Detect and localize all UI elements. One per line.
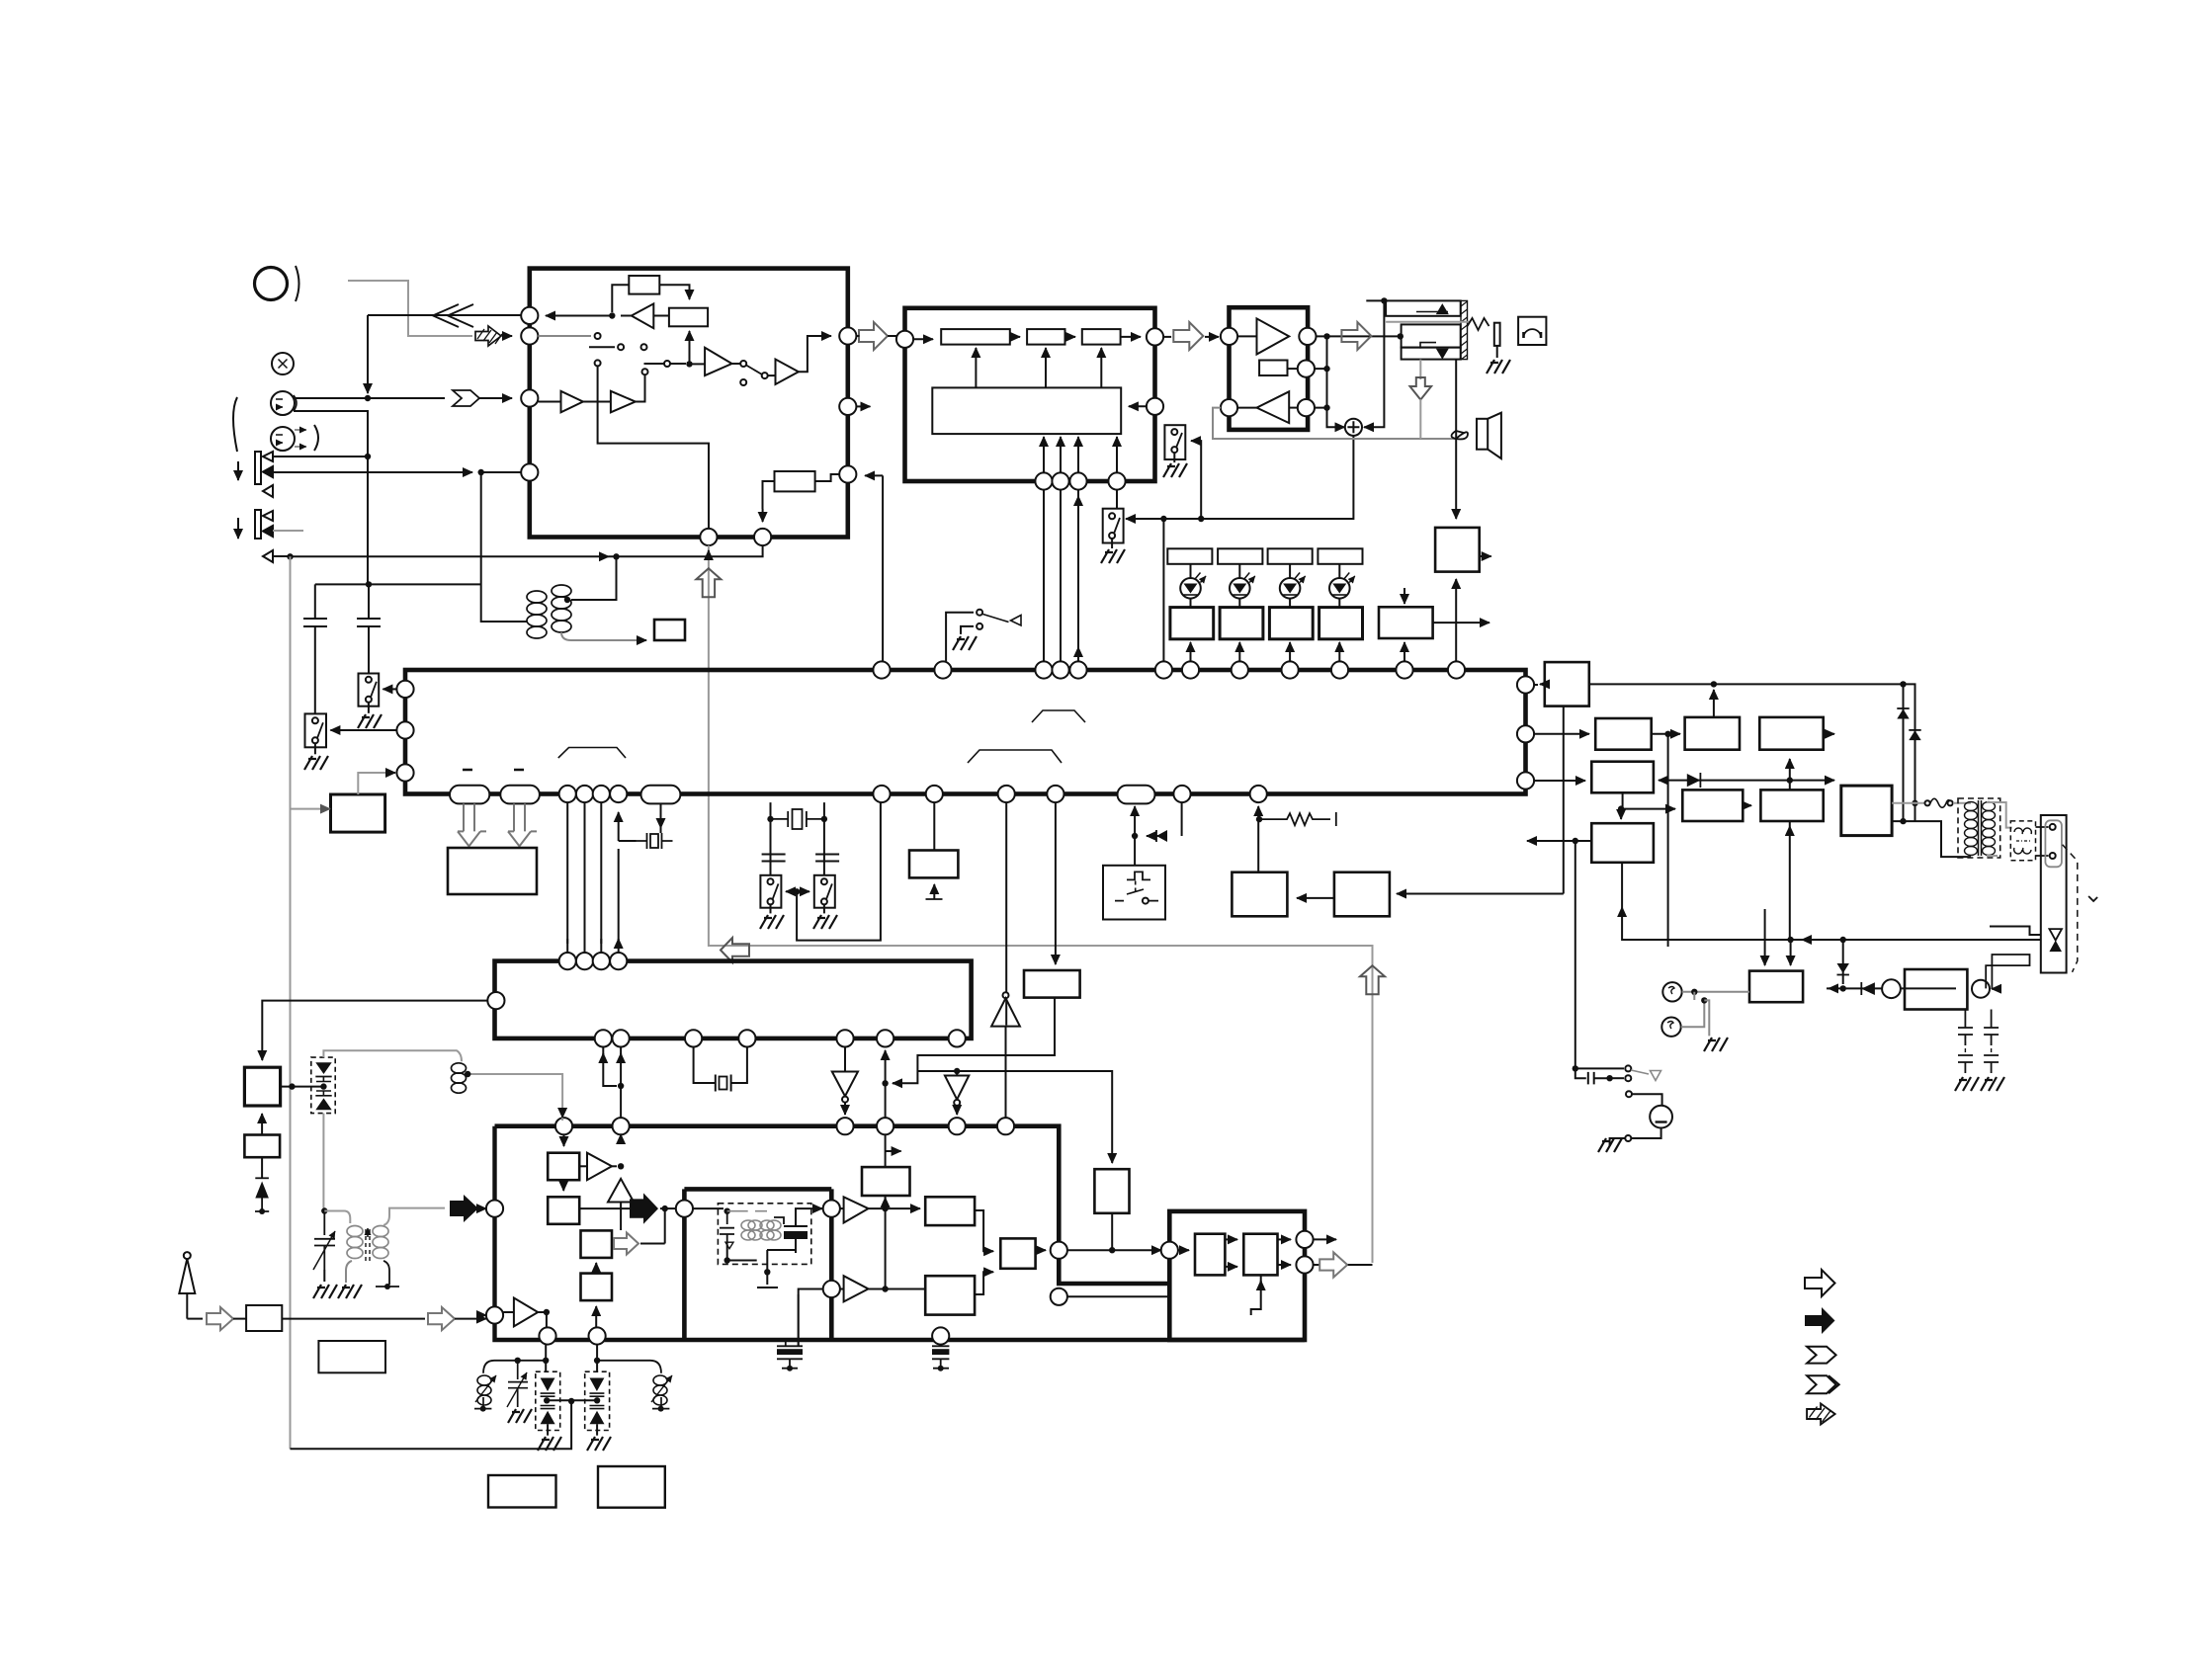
variable inductor L3	[477, 1375, 491, 1405]
vertical from coils to wire	[571, 556, 617, 600]
box D2	[244, 1135, 280, 1158]
minus marks	[463, 769, 524, 772]
right feed into summing	[1366, 300, 1384, 427]
bottom pins	[595, 1030, 612, 1046]
contact c7 and wire	[664, 361, 670, 367]
grey arrows from head R	[295, 429, 306, 431]
summing node	[1345, 419, 1362, 436]
junction	[1711, 681, 1717, 687]
VD bottom grey to tank node	[322, 1114, 324, 1208]
big outline	[495, 1126, 1170, 1284]
lamp wires	[1682, 991, 1749, 993]
junction	[321, 1207, 327, 1213]
vertical rec-bus to coil	[481, 472, 527, 622]
SW4 branch	[1196, 441, 1201, 519]
wire IC2 to IC3	[1163, 336, 1171, 338]
zigzag spring	[1468, 318, 1489, 330]
pin Pmid right	[839, 398, 856, 415]
pin	[593, 786, 610, 802]
box display	[448, 848, 537, 894]
box R3	[669, 308, 708, 327]
hollow up arrow	[1360, 965, 1385, 994]
bus outline	[405, 670, 1526, 794]
crystal X2	[771, 811, 824, 827]
box BRdiv	[1682, 789, 1743, 821]
variable cap VC1	[314, 1211, 335, 1271]
IC1 outline	[530, 269, 848, 538]
switch contact	[1143, 898, 1149, 904]
ground	[953, 636, 977, 650]
bottom pins right side	[873, 786, 890, 802]
pin	[997, 1118, 1014, 1134]
box BR3	[1685, 717, 1740, 750]
ground	[1487, 360, 1510, 374]
IC3 step wire to speaker line	[1213, 408, 1456, 439]
pin	[1047, 786, 1063, 802]
big down arrow below oval1	[458, 803, 486, 846]
junction	[465, 1071, 470, 1077]
pin	[1069, 661, 1086, 678]
pin left	[896, 331, 913, 348]
junction	[1912, 800, 1917, 806]
A3 out to contact c5	[636, 374, 645, 402]
motor circle X	[272, 353, 294, 374]
junction	[662, 1205, 668, 1211]
BR1 bottom drop to B8	[1563, 706, 1565, 894]
switch contact	[366, 697, 372, 703]
ground	[313, 1285, 337, 1298]
switch contact	[954, 1100, 960, 1106]
speaker	[1477, 419, 1488, 450]
box R2	[775, 471, 815, 491]
junction	[767, 816, 773, 822]
resistor box R1	[629, 276, 659, 294]
grey contact line	[1386, 321, 1470, 323]
erase head 1	[255, 452, 261, 484]
IC4 outline	[495, 961, 972, 1039]
R1 right to R3 top	[659, 285, 689, 299]
cap under right	[815, 855, 839, 862]
dashed caps to ground right	[1964, 1010, 1966, 1037]
head L lower wire	[294, 411, 368, 584]
black arrow into IC5	[450, 1195, 478, 1222]
wire erase head to junction	[273, 456, 368, 457]
junction	[724, 1257, 730, 1263]
BR5 left arrow stub	[1527, 840, 1591, 842]
wire BRmid node to BRdiv	[1621, 808, 1675, 810]
transformer T3	[347, 1226, 388, 1259]
VD top grey to FM ant coil	[323, 1050, 462, 1061]
box I5d	[581, 1274, 613, 1301]
switch contact	[1625, 1065, 1631, 1071]
Pout outside arrow glyph	[859, 322, 888, 350]
pin	[1161, 1242, 1178, 1259]
switch contact	[1109, 513, 1115, 519]
pin	[1173, 786, 1190, 802]
box power-detect	[1435, 528, 1480, 572]
box BR6 power xfmr driver	[1841, 786, 1892, 836]
switch SW7	[814, 875, 835, 908]
variable inductor L4	[653, 1375, 667, 1405]
big down arrow below oval2	[508, 803, 537, 846]
box B7	[1232, 873, 1287, 917]
wire Pout to IC2	[856, 335, 896, 337]
capacitor C-right	[357, 584, 381, 673]
ground at jack	[1496, 346, 1498, 358]
T1 primary coil	[1965, 802, 1978, 856]
ground	[1981, 1077, 2004, 1091]
junction	[1840, 937, 1846, 943]
pin P2	[521, 327, 538, 344]
wire D1 to varicap	[281, 1086, 324, 1088]
top boxes	[1167, 548, 1212, 564]
diode down v3	[1842, 940, 1844, 984]
pin	[877, 1118, 893, 1134]
IC3 outline	[1230, 307, 1309, 430]
dc jack cap	[1575, 1068, 1608, 1084]
grey selector triangle	[1631, 1070, 1649, 1074]
junction	[882, 1080, 888, 1086]
hatched sleeve strip	[1461, 300, 1468, 359]
pin P5 bottom	[700, 529, 717, 545]
junction	[882, 1286, 888, 1291]
box B3	[1082, 329, 1121, 345]
pin	[610, 953, 627, 969]
coil junction dot	[564, 597, 570, 603]
R1 left loop to node	[612, 285, 629, 312]
pin	[589, 1327, 606, 1344]
plug hourglass triangles	[2049, 929, 2062, 941]
rec head wire (to IC1 P4row)	[273, 471, 465, 473]
diode to pin1196	[1147, 835, 1167, 837]
black up triangle	[1436, 303, 1449, 314]
box BR4	[1759, 717, 1823, 750]
pin on notch wall	[1051, 1288, 1067, 1305]
hollow arrow	[207, 1307, 233, 1330]
battery selector chain	[1574, 841, 1576, 1068]
pin	[593, 953, 610, 969]
IC2 outline	[905, 308, 1155, 481]
switch contact	[312, 717, 318, 723]
diode chain v1	[1903, 684, 1905, 818]
pin	[1035, 661, 1052, 678]
ground	[1598, 1138, 1622, 1152]
AM feeder bottom run	[291, 1401, 572, 1449]
left stack VD2	[545, 1345, 547, 1372]
crystal X1	[637, 833, 673, 849]
grey from box top to L3	[358, 773, 392, 794]
headphone jack upper contact rect	[1386, 300, 1461, 315]
AM tank tie line	[547, 1399, 597, 1401]
switch contact	[1171, 429, 1177, 435]
inner walls	[684, 1189, 831, 1340]
chevron glyph	[453, 390, 479, 406]
pin	[1052, 472, 1068, 489]
black down triangle	[1436, 349, 1449, 360]
switch contact	[1109, 533, 1115, 539]
cap2 below IC7	[932, 1327, 949, 1344]
Pmid outside stub	[856, 405, 870, 407]
wire to IC7	[1067, 1249, 1163, 1251]
amp A5	[776, 360, 799, 385]
filter to plug contacts	[2036, 827, 2049, 856]
wire arrow into P2	[503, 335, 512, 337]
switch contact	[642, 369, 648, 374]
grey line to black arrow	[383, 1208, 445, 1225]
pin	[1069, 472, 1086, 489]
IC7 outline	[1169, 1211, 1305, 1340]
wire head L to IC1 P3	[295, 397, 445, 399]
antenna wire	[187, 1318, 203, 1320]
box I6b	[925, 1276, 975, 1314]
small triangle symbol	[263, 485, 273, 497]
wire P1 to mech (double chevron)	[368, 314, 522, 316]
pin	[1052, 661, 1068, 678]
amp A2	[561, 391, 583, 413]
output node wires	[1317, 335, 1401, 337]
junction	[544, 1397, 550, 1403]
plug dashes	[2063, 845, 2078, 972]
osc triangle up	[608, 1179, 634, 1203]
box B8	[1334, 873, 1390, 917]
pin	[934, 661, 951, 678]
switch contact	[768, 898, 774, 904]
BR1 out long rail	[1589, 684, 1915, 822]
driver boxes	[1170, 608, 1214, 639]
T2 cap	[720, 1213, 734, 1245]
junction	[289, 1083, 295, 1089]
pin 895 up arrow	[885, 1050, 887, 1083]
junction	[724, 1208, 730, 1214]
pin	[610, 786, 627, 802]
ground	[338, 1285, 362, 1298]
grey feed from AM rail to box	[291, 556, 327, 808]
box motor-drive	[654, 620, 685, 640]
bottom circle pins	[559, 786, 576, 802]
junction	[365, 454, 371, 459]
P5 grey drop	[709, 545, 1369, 946]
bus pins up into drivers	[1190, 642, 1192, 661]
pin	[926, 786, 943, 802]
ground	[304, 756, 328, 770]
pin right mid	[1147, 398, 1163, 415]
pin P3	[521, 389, 538, 406]
pin P4 right	[839, 465, 856, 482]
switch contact	[977, 623, 982, 629]
left pins	[486, 1201, 503, 1217]
T1 secondary wires to filter	[1987, 802, 2012, 828]
relay line A to plug	[1622, 939, 2041, 941]
pin	[1517, 725, 1534, 742]
hollow arrow I5c out	[614, 1233, 638, 1255]
junction	[515, 1358, 521, 1364]
junction dot	[365, 395, 371, 401]
pin	[1331, 661, 1348, 678]
pins up to B4	[1043, 437, 1045, 472]
grey stub from rec head 2	[273, 530, 303, 532]
amp I5	[587, 1153, 612, 1181]
switch contact	[977, 610, 982, 616]
bus bottom oval pin 3	[641, 786, 681, 804]
BRdiv2 drop	[1789, 821, 1791, 940]
bottom pins	[539, 1327, 555, 1344]
pin	[576, 786, 593, 802]
T2 coils grey	[741, 1220, 781, 1240]
resistor from bus pin1273	[1257, 806, 1259, 810]
junction	[594, 1397, 600, 1403]
down arrow 1	[237, 461, 239, 480]
bus top pins	[873, 661, 890, 678]
inverter 1	[844, 1047, 846, 1072]
BRmid output node	[1622, 792, 1624, 808]
junction	[544, 1309, 550, 1315]
I6R out to IC6 pin	[1051, 1242, 1067, 1259]
box I6R	[1000, 1238, 1035, 1268]
left pins	[396, 681, 413, 698]
junction	[1664, 731, 1670, 737]
switch contact	[1625, 1135, 1631, 1141]
junction	[613, 553, 619, 559]
grey node to T3 and arrow	[324, 1211, 350, 1224]
switch SW1	[359, 674, 380, 706]
diode left on row	[1861, 982, 1875, 995]
pin low right	[1298, 399, 1315, 416]
ground	[1704, 1038, 1728, 1051]
switch contact	[641, 344, 647, 350]
bracket right of head R	[314, 425, 318, 451]
dashed varicap box VD	[311, 1057, 335, 1114]
capacitor C-left	[303, 584, 327, 713]
box BR5	[1591, 823, 1654, 863]
T3 grounds	[346, 1261, 352, 1283]
pin	[877, 1030, 893, 1046]
pin	[823, 1281, 840, 1297]
switch contact	[842, 1097, 848, 1103]
box D3	[246, 1305, 282, 1331]
bus bottom oval pin 1	[450, 786, 489, 804]
box meter-mid	[1379, 607, 1433, 638]
IC6 left pins	[823, 1201, 840, 1217]
amp A3	[611, 391, 636, 413]
switch contact	[821, 878, 827, 884]
wires between	[913, 338, 933, 340]
diode chain v2	[1914, 729, 1916, 800]
switch contact	[2050, 853, 2056, 859]
switch contact	[762, 373, 768, 378]
switch SW4	[1164, 425, 1185, 459]
capacitor feed line	[315, 583, 481, 585]
P4 outside wire	[865, 474, 883, 476]
jack lower rect	[1402, 348, 1461, 360]
junction	[320, 1083, 326, 1089]
wire grey from mech to IC1 P2	[348, 281, 472, 336]
pin	[949, 1118, 966, 1134]
junction	[1840, 985, 1846, 991]
pin Pout right	[839, 327, 856, 344]
wire plug mid	[1990, 927, 2041, 936]
double chevron glyph left	[433, 304, 473, 327]
down arrow 2	[237, 518, 239, 539]
amp A7	[1257, 391, 1290, 423]
pin	[998, 786, 1015, 802]
junction	[1256, 816, 1262, 822]
junction	[1323, 333, 1329, 339]
play head R circle	[271, 427, 295, 451]
pin	[676, 1201, 693, 1217]
amp A1 left-pointing	[632, 303, 654, 328]
oval3 down arrow to xtal	[660, 803, 662, 828]
box gain	[1259, 361, 1287, 376]
plug bar	[1494, 323, 1500, 346]
junction	[618, 1083, 624, 1089]
oscillator coil left	[527, 585, 571, 638]
IC7 right pins	[1296, 1231, 1313, 1248]
amp bottom-left	[514, 1298, 538, 1327]
pin	[1250, 786, 1267, 802]
switch contact	[1171, 447, 1177, 453]
pin1/2 below	[603, 1047, 617, 1087]
pin4 to SW3	[1116, 490, 1118, 509]
pin	[576, 953, 593, 969]
junction	[366, 581, 372, 587]
feed to lower pin	[799, 1289, 823, 1347]
box BRdiv2	[1760, 789, 1823, 821]
junction	[1381, 297, 1387, 303]
h2 wire	[917, 1071, 1112, 1163]
grey drop from jack to speaker	[1419, 360, 1421, 379]
hollow arrow 2	[428, 1307, 455, 1330]
pin out right	[1299, 328, 1316, 345]
junction	[609, 312, 615, 318]
BR6 bottom wire to xfmr	[1892, 821, 1971, 857]
A5 out to Pout	[799, 336, 831, 372]
pin right top	[1147, 328, 1163, 345]
switch contact	[740, 379, 746, 385]
jack dot	[1398, 333, 1404, 339]
line up to plug w3	[1986, 955, 2029, 989]
junction	[821, 816, 827, 822]
junction	[1787, 777, 1793, 783]
left stack branch to L3	[483, 1361, 546, 1373]
junction	[568, 1398, 574, 1404]
pin	[1232, 661, 1248, 678]
push switch SW8	[1103, 866, 1165, 920]
IC5 internal: box I5a	[548, 1153, 579, 1181]
bus bottom oval pin 2	[500, 786, 540, 804]
battery symbol	[1650, 1106, 1672, 1128]
junction	[1573, 838, 1578, 844]
junction	[1900, 681, 1906, 687]
ground	[1163, 463, 1187, 477]
bracket left of heads	[233, 397, 237, 452]
wires below pins to bus with S hooks	[1044, 490, 1061, 665]
diode feedback line	[1653, 780, 1655, 782]
pin	[1296, 1256, 1313, 1273]
contact c4 with vertical	[595, 360, 601, 366]
junction	[618, 1163, 624, 1169]
junction	[1573, 1065, 1578, 1071]
switch contact	[312, 737, 318, 743]
switch contact	[821, 898, 827, 904]
pin P6 bottom	[754, 529, 771, 545]
pin	[1108, 472, 1125, 489]
ground	[813, 915, 837, 929]
left pin	[487, 992, 504, 1009]
h1 wire loop	[893, 998, 1055, 1084]
switch SW6	[760, 875, 781, 908]
pin	[836, 1118, 853, 1134]
junction	[1198, 516, 1204, 522]
